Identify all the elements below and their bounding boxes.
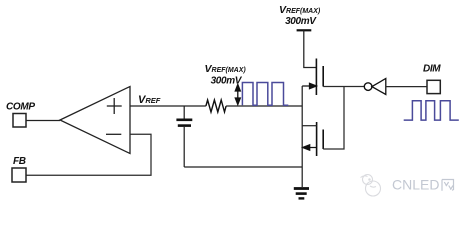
PWM square wave at VREF node <box>242 83 288 106</box>
op-amp minus input symbol <box>106 133 121 135</box>
amplitude arrow (double headed) <box>235 85 240 105</box>
capacitor C1 plates <box>176 119 192 122</box>
transistor Q2 channel bar <box>316 122 318 156</box>
COMP terminal pad <box>13 114 26 128</box>
wire minus input stub to FB loop <box>26 134 151 175</box>
svg-text:FB: FB <box>13 156 26 167</box>
op-amp U1 (error amplifier, output facing left) <box>60 87 130 154</box>
capacitor C1 bottom lead <box>183 127 185 167</box>
wire bus to ground <box>301 148 303 188</box>
supply rail bar <box>297 29 312 31</box>
wire VREF: op-amp + input to resistor <box>130 105 206 107</box>
inverter gate (pointing left) bubble <box>364 83 372 91</box>
op-amp plus input symbol <box>107 98 122 114</box>
svg-text:300mV: 300mV <box>285 16 317 27</box>
resistor R1 <box>206 100 226 112</box>
DIM terminal pad <box>427 80 440 93</box>
svg-text:CNLED: CNLED <box>392 177 439 193</box>
svg-text:DIM: DIM <box>423 64 441 75</box>
bus node: vertical wire joining VREF wire and transistor pair <box>301 86 303 148</box>
capacitor C1 top lead <box>183 106 185 119</box>
FB terminal pad <box>12 168 26 182</box>
watermark glyph 网 <box>442 180 454 191</box>
watermark bird icon <box>361 175 381 197</box>
ground <box>294 189 309 199</box>
transistor Q2 source lead with arrow <box>303 145 317 150</box>
transistor Q2 gate lead <box>323 87 344 150</box>
transistor Q2 gate bar <box>322 130 324 150</box>
transistor Q2 drain lead <box>302 125 316 127</box>
wire resistor to transistor bus <box>226 105 302 107</box>
svg-text:COMP: COMP <box>6 102 35 113</box>
wire inverter input to DIM pad <box>386 86 427 88</box>
transistor Q1 channel bar <box>315 59 317 96</box>
bottom rail wire to ground node <box>184 166 302 168</box>
inverter gate triangle <box>372 79 386 95</box>
transistor Q1 source lead with arrow <box>302 83 316 88</box>
wire COMP to op-amp output <box>26 120 60 122</box>
svg-text:VREF: VREF <box>138 94 161 106</box>
transistor Q1 gate lead to inverter <box>323 86 364 88</box>
wire supply to Q1 drain <box>304 30 317 67</box>
PWM square wave at DIM input <box>404 101 459 120</box>
transistor Q1 gate bar <box>322 66 324 87</box>
